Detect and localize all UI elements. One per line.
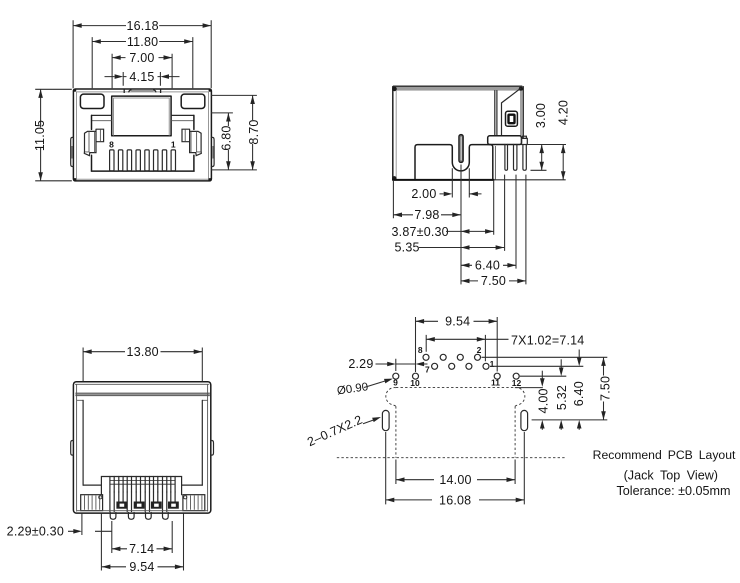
solder feet [110, 513, 168, 520]
right extension lines [494, 145, 566, 180]
dim 7.98 [393, 208, 461, 222]
svg-text:(Jack Top View): (Jack Top View) [624, 469, 718, 483]
jack body outline [73, 89, 211, 181]
dim 6.40 [461, 259, 516, 273]
svg-text:Recommend PCB Layout: Recommend PCB Layout [593, 448, 736, 462]
footprint-top reference line [515, 387, 543, 389]
svg-text:3.87±0.30: 3.87±0.30 [392, 225, 449, 239]
dim 7X1.02=7.14 [426, 334, 584, 362]
right hatched post [183, 495, 205, 511]
peg centre extension [460, 165, 462, 285]
extension lines below [393, 168, 493, 235]
cavity bottom [83, 484, 202, 486]
cavity walls [83, 400, 202, 485]
svg-text:8: 8 [109, 140, 114, 150]
opening second step lines [92, 120, 194, 122]
pcb edge line [337, 457, 567, 459]
svg-text:7X1.02=7.14: 7X1.02=7.14 [511, 334, 584, 348]
odd tooth tails to bottom [110, 492, 167, 512]
svg-text:8: 8 [418, 345, 423, 355]
dim 7.14 [112, 521, 172, 556]
contact pads (dark with white windows) [116, 502, 178, 509]
dim 2.29±0.30 [7, 514, 112, 571]
svg-text:4.15: 4.15 [129, 70, 154, 84]
right latch clip (mirror) [182, 129, 201, 155]
svg-text:2.29: 2.29 [348, 357, 373, 371]
svg-text:7.50: 7.50 [481, 274, 506, 288]
left side bump [71, 441, 74, 456]
svg-text:7.98: 7.98 [414, 208, 439, 222]
inner steps [77, 399, 208, 401]
central plug opening [112, 96, 171, 136]
svg-text:16.08: 16.08 [439, 493, 471, 507]
svg-text:7: 7 [425, 365, 430, 375]
right LED window [181, 94, 205, 108]
svg-text:10: 10 [410, 378, 420, 388]
slant edge [502, 88, 521, 136]
svg-text:2.29±0.30: 2.29±0.30 [7, 524, 64, 538]
svg-text:4.20: 4.20 [556, 100, 570, 125]
pin extension lines [505, 175, 526, 285]
dim 5.35 [395, 241, 505, 255]
left latch clip [84, 129, 103, 155]
dim 2.00 [411, 187, 481, 201]
svg-text:9.54: 9.54 [129, 560, 154, 574]
svg-text:2.00: 2.00 [411, 187, 436, 201]
opening side walls [92, 115, 194, 170]
svg-text:9: 9 [393, 377, 398, 387]
dim 6.80 [211, 113, 257, 170]
body right upper edge [522, 86, 524, 138]
opening bottom [92, 170, 195, 172]
mounting collar [488, 136, 522, 145]
dim 4.15 [105, 70, 180, 86]
opening step lines [92, 114, 194, 116]
dim 4.00 [536, 371, 550, 430]
dim 11.05 [33, 89, 72, 181]
svg-text:11: 11 [491, 377, 500, 387]
right lower outer edge [494, 146, 496, 179]
front face shaded band [75, 393, 209, 396]
left LED window [80, 94, 104, 108]
contact teeth (8, double-line) [110, 477, 175, 512]
svg-text:3.00: 3.00 [534, 103, 548, 128]
label 2-0.7X2.2 with leader [305, 412, 382, 449]
svg-text:5.32: 5.32 [555, 385, 569, 410]
inner bottom line [77, 510, 208, 512]
even tooth stubs to pads [119, 492, 175, 502]
dim 8.70 [211, 95, 261, 169]
solder pins [505, 145, 508, 171]
svg-text:Ø0.90: Ø0.90 [336, 381, 369, 397]
bottom cavity outline [415, 145, 493, 180]
top offset line [75, 383, 209, 385]
svg-text:6.40: 6.40 [572, 381, 586, 406]
svg-text:1: 1 [490, 359, 495, 369]
label Ø0.90 with leader [336, 376, 393, 397]
dim 9.54 [102, 514, 184, 575]
svg-text:1: 1 [171, 140, 176, 150]
svg-text:9.54: 9.54 [445, 315, 470, 329]
central opening inner offset [114, 98, 170, 136]
inner verticals at mating face [495, 91, 497, 136]
dim 3.87±0.30 [392, 225, 494, 239]
mounting slots [382, 410, 389, 430]
hole number labels [393, 345, 521, 388]
body outline [73, 382, 210, 513]
svg-text:12: 12 [512, 378, 522, 388]
slot centreline reference [532, 419, 608, 421]
body top shaded band [393, 86, 522, 91]
svg-text:11.05: 11.05 [33, 120, 47, 151]
right side bump [211, 441, 214, 456]
body bottom edge [392, 179, 494, 181]
dim 16.08 [386, 432, 525, 507]
dim 6.40 [572, 350, 586, 430]
title text [593, 448, 736, 498]
contact block [101, 477, 181, 495]
body left edge [392, 86, 394, 180]
svg-text:13.80: 13.80 [127, 345, 159, 359]
svg-text:7.00: 7.00 [129, 51, 154, 65]
svg-text:16.18: 16.18 [126, 19, 158, 33]
dim 2.29 (pcb) [348, 357, 427, 371]
dim 14.00 [396, 460, 515, 488]
svg-text:14.00: 14.00 [439, 473, 471, 487]
dim 16.18 [73, 19, 211, 88]
top plug-guide tab [124, 89, 160, 96]
side latch window [506, 111, 518, 126]
dim 7.50 [598, 357, 612, 420]
contact holes row A (pins 8,6,4,2) [423, 354, 481, 360]
svg-text:7.50: 7.50 [598, 376, 612, 401]
svg-text:5.35: 5.35 [395, 241, 420, 255]
dim 11.80 [92, 35, 193, 88]
shield/other holes 9-12 [393, 373, 519, 379]
corner dots [392, 87, 523, 181]
right side bump [211, 137, 214, 166]
center peg [459, 135, 463, 163]
left side bump [71, 137, 74, 166]
dim 3.00 [534, 103, 548, 170]
svg-text:4.00: 4.00 [536, 388, 550, 413]
svg-text:2: 2 [477, 345, 482, 355]
dim 13.80 [83, 345, 202, 381]
svg-text:6.80: 6.80 [219, 125, 233, 150]
left hatched post [81, 495, 103, 511]
contact holes row B (pins 7,5,3,1) [432, 363, 489, 369]
footprint outline (dashed) [337, 388, 567, 458]
corner dots [73, 89, 211, 182]
dim 9.54 (pcb) [416, 315, 498, 373]
svg-text:6.40: 6.40 [475, 259, 500, 273]
dim 7.00 [112, 51, 172, 88]
collar side tab [522, 138, 528, 144]
dim 5.32 [555, 359, 569, 430]
hole row reference lines [482, 356, 608, 358]
svg-text:8.70: 8.70 [247, 119, 261, 144]
svg-text:11.80: 11.80 [127, 35, 158, 49]
jack body inner offset line [76, 92, 208, 179]
dim 4.20 [556, 100, 570, 180]
contact comb: 8 slots [110, 150, 176, 171]
svg-text:2–0.7X2.2: 2–0.7X2.2 [305, 412, 364, 449]
inner side walls [77, 384, 208, 511]
svg-text:7.14: 7.14 [129, 542, 154, 556]
dim 7.50 [461, 274, 526, 288]
svg-text:Tolerance: ±0.05mm: Tolerance: ±0.05mm [616, 484, 730, 498]
